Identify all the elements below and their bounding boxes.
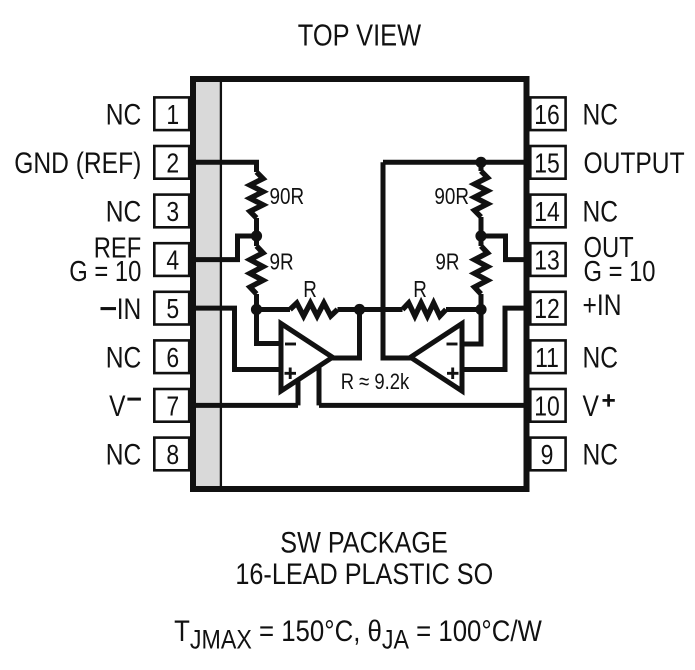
svg-text:NC: NC — [106, 340, 142, 374]
wire 9R right leads — [479, 236, 484, 310]
svg-text:1: 1 — [166, 100, 179, 131]
caption 16-LEAD PLASTIC SO — [235, 557, 493, 590]
node A junction 90R/9R left — [251, 230, 262, 241]
wire V+ supply to pin10 — [319, 403, 529, 408]
svg-text:NC: NC — [583, 194, 619, 228]
pin 12 number — [534, 294, 560, 325]
svg-text:NC: NC — [583, 340, 619, 374]
caption thermal note — [174, 614, 542, 655]
pin 8 number — [166, 440, 179, 471]
svg-text:90R: 90R — [434, 184, 469, 209]
svg-text:9R: 9R — [270, 250, 294, 275]
svg-text:SW PACKAGE: SW PACKAGE — [280, 526, 447, 560]
op-amp A1 plus input symbol — [285, 368, 297, 380]
wire node D to right op-amp - input — [460, 310, 481, 345]
resistor 9R left — [250, 246, 263, 294]
svg-text:15: 15 — [534, 148, 560, 179]
wire pin12 +IN to right op-amp + input — [460, 308, 529, 369]
caption SW PACKAGE — [280, 526, 447, 560]
pin 14 label NC — [583, 194, 619, 228]
wire node B to left op-amp - input — [257, 310, 284, 344]
svg-text:R: R — [413, 278, 427, 303]
stripe inner edge line — [220, 82, 222, 486]
pin 11 label NC — [583, 340, 619, 374]
pin 13 number — [534, 246, 560, 277]
wire left op-amp V- supply stub — [296, 377, 301, 405]
svg-text:NC: NC — [583, 437, 619, 471]
svg-text:NC: NC — [106, 437, 142, 471]
svg-text:V: V — [109, 389, 126, 423]
svg-text:G = 10: G = 10 — [584, 255, 656, 288]
pin 11 number — [535, 343, 559, 374]
wire pin7 V- supply — [191, 403, 299, 408]
pin 2 label GND (REF) — [14, 146, 141, 180]
pin 1 label NC — [106, 97, 142, 131]
svg-text:2: 2 — [166, 148, 179, 179]
wire 90R right leads — [479, 162, 484, 236]
pin 16 label NC — [583, 97, 619, 131]
svg-text:NC: NC — [106, 194, 142, 228]
svg-text:4: 4 — [166, 246, 179, 277]
wire 90R bottom to node A — [254, 218, 259, 236]
pin 12 label +IN — [583, 288, 622, 322]
svg-text:9: 9 — [541, 440, 554, 471]
resistor 90R right — [475, 171, 488, 217]
pin 4 label REF — [94, 231, 142, 264]
svg-text:TOP VIEW: TOP VIEW — [298, 18, 422, 53]
wire pin4 REF to node A — [191, 236, 257, 260]
svg-text:R ≈ 9.2k: R ≈ 9.2k — [341, 369, 410, 394]
wire R left to R right across — [338, 307, 403, 312]
resistor R left — [290, 303, 338, 316]
pin 15 label OUTPUT — [584, 146, 685, 180]
op-amp A2 minus input symbol — [447, 343, 458, 346]
svg-text:16-LEAD PLASTIC SO: 16-LEAD PLASTIC SO — [235, 557, 493, 590]
pin 6 label NC — [106, 340, 142, 374]
pin 4 box — [154, 243, 189, 276]
wire pin2 GND(REF) to 90R top — [191, 162, 257, 172]
wire left op-amp V+ supply stub — [317, 364, 322, 406]
wire pin15 OUTPUT top loop — [383, 160, 529, 165]
wire R right to node D — [446, 307, 481, 312]
pin 13 box — [530, 243, 565, 276]
svg-text:90R: 90R — [270, 184, 305, 209]
pin 10 number — [534, 391, 560, 422]
pin 16 number — [534, 100, 560, 131]
pin 14 box — [530, 195, 565, 228]
svg-text:NC: NC — [583, 97, 619, 131]
wire right op-amp output up to pin15 loop — [383, 162, 413, 358]
label 90R right — [434, 184, 469, 209]
pin 8 box — [154, 438, 189, 471]
pin 1 number — [166, 100, 179, 131]
resistor 9R right — [475, 246, 488, 294]
pin 3 number — [166, 197, 179, 228]
wire node B to R left — [257, 307, 291, 312]
svg-text:6: 6 — [166, 343, 179, 374]
wire node E to pin13 OUT — [481, 236, 529, 260]
svg-text:OUTPUT: OUTPUT — [584, 146, 685, 180]
pin 4 label G = 10 — [69, 255, 141, 288]
resistor R right — [403, 303, 447, 316]
op-amp A1 left — [281, 324, 333, 392]
wire pin5 -IN to left op-amp + input — [191, 308, 284, 369]
svg-text:V: V — [583, 389, 600, 423]
pin 6 number — [166, 343, 179, 374]
pin 10 label V+ — [583, 389, 600, 423]
label 9R left — [270, 250, 294, 275]
pin 10 box — [530, 389, 565, 422]
pin 9 number — [541, 440, 554, 471]
pin 3 label NC — [106, 194, 142, 228]
pin-1 side shading stripe — [196, 82, 220, 486]
pin 14 number — [534, 197, 560, 228]
pin 11 box — [530, 340, 565, 373]
node B junction 9R/R/left op-amp - — [251, 304, 262, 315]
node pin15/90R right junction — [475, 157, 486, 168]
node D junction 9R/R/right op-amp - — [475, 304, 486, 315]
svg-text:TJMAX = 150°C, θJA = 100°C/W: TJMAX = 150°C, θJA = 100°C/W — [174, 614, 542, 655]
title TOP VIEW — [298, 18, 422, 53]
pin 1 box — [154, 97, 189, 130]
pin 2 number — [166, 148, 179, 179]
svg-text:GND (REF): GND (REF) — [14, 146, 141, 180]
pin 9 box — [530, 438, 565, 471]
resistor 90R left — [250, 172, 263, 218]
label 9R right — [435, 250, 459, 275]
pin 13 label G = 10 — [584, 255, 656, 288]
label R right — [413, 278, 427, 303]
pin 5 number — [166, 294, 179, 325]
svg-text:14: 14 — [534, 197, 560, 228]
svg-text:NC: NC — [106, 97, 142, 131]
pin 9 label NC — [583, 437, 619, 471]
node E junction 90R/9R right — [475, 230, 486, 241]
pin 16 box — [530, 97, 565, 130]
svg-text:12: 12 — [534, 294, 560, 325]
svg-text:+IN: +IN — [583, 288, 622, 322]
pin 8 label NC — [106, 437, 142, 471]
svg-text:3: 3 — [166, 197, 179, 228]
pin 12 box — [530, 292, 565, 325]
svg-text:13: 13 — [534, 246, 560, 277]
svg-text:R: R — [303, 278, 317, 303]
pin 7 superscript minus — [127, 398, 140, 401]
IC package body — [193, 79, 527, 489]
pin 2 box — [154, 146, 189, 179]
pin 7 number — [166, 391, 179, 422]
svg-text:8: 8 — [166, 440, 179, 471]
pin 13 label OUT — [584, 231, 634, 264]
pin 5 label minus dash — [101, 307, 117, 310]
pin 5 box — [154, 292, 189, 325]
pin 6 box — [154, 340, 189, 373]
svg-text:9R: 9R — [435, 250, 459, 275]
op-amp A1 minus input symbol — [285, 343, 296, 346]
wire left op-amp output feedback to node C — [331, 310, 360, 359]
svg-text:10: 10 — [534, 391, 560, 422]
pin 7 label V- — [109, 389, 126, 423]
node C junction R/left op-amp output — [354, 304, 365, 315]
label R approx 9.2k — [341, 369, 410, 394]
pin 5 label -IN — [117, 292, 142, 326]
label 90R left — [270, 184, 305, 209]
pin 10 superscript plus — [603, 394, 615, 406]
pin 3 box — [154, 195, 189, 228]
svg-text:16: 16 — [534, 100, 560, 131]
svg-text:IN: IN — [117, 292, 142, 326]
svg-text:G = 10: G = 10 — [69, 255, 141, 288]
svg-text:11: 11 — [535, 343, 559, 374]
pin 4 number — [166, 246, 179, 277]
op-amp A2 plus input symbol — [447, 368, 459, 380]
label R left — [303, 278, 317, 303]
pin 15 box — [530, 146, 565, 179]
svg-text:7: 7 — [166, 391, 179, 422]
op-amp A2 right — [411, 324, 463, 392]
pin 15 number — [534, 148, 560, 179]
wire 9R left leads — [254, 236, 259, 310]
pin 7 box — [154, 389, 189, 422]
svg-text:5: 5 — [166, 294, 179, 325]
